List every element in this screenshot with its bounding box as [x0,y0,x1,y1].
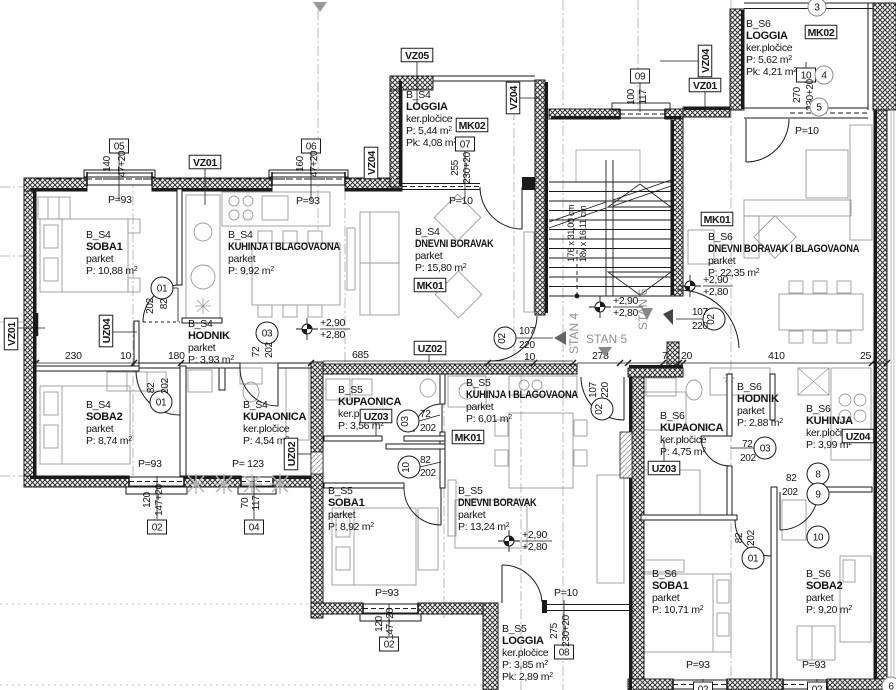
svg-text:47+20: 47+20 [309,150,320,177]
svg-text:P: 13,24 m2: P: 13,24 m2 [458,521,510,533]
svg-text:B_S4: B_S4 [243,399,268,411]
svg-text:202: 202 [420,468,437,479]
svg-text:P=93: P=93 [296,195,320,207]
svg-text:SOBA1: SOBA1 [652,580,689,592]
svg-text:KUHINJA: KUHINJA [806,415,853,427]
svg-text:B_S6: B_S6 [708,231,733,243]
svg-text:P: 8,92 m2: P: 8,92 m2 [328,521,374,533]
svg-text:B_S6: B_S6 [806,568,831,580]
svg-text:+2,90: +2,90 [522,529,548,541]
svg-text:P: 9,92 m2: P: 9,92 m2 [228,265,274,277]
svg-text:220: 220 [600,381,611,398]
svg-text:5: 5 [816,103,822,114]
svg-text:7: 7 [662,350,668,362]
svg-text:02: 02 [152,523,163,534]
svg-text:202: 202 [740,453,757,464]
svg-text:P: 4,54 m2: P: 4,54 m2 [243,435,289,447]
svg-text:255: 255 [450,159,461,176]
svg-text:ker.pločice: ker.pločice [746,42,793,54]
svg-text:LOGGIA: LOGGIA [746,30,788,42]
svg-text:parket: parket [737,405,765,417]
svg-text:KUPAONICA: KUPAONICA [660,422,723,434]
svg-text:VZ01: VZ01 [193,157,217,169]
svg-text:82: 82 [734,532,745,543]
svg-text:230: 230 [65,350,82,362]
svg-text:P: 5,44 m2: P: 5,44 m2 [406,125,452,137]
svg-text:ker.pločice: ker.pločice [243,423,290,435]
svg-text:DNEVNI BORAVAK I BLAGOVAONA: DNEVNI BORAVAK I BLAGOVAONA [708,243,859,255]
svg-text:82: 82 [146,382,157,393]
svg-text:82: 82 [159,298,170,309]
svg-text:25: 25 [860,350,872,362]
svg-text:P: 3,93 m2: P: 3,93 m2 [188,354,234,366]
svg-text:P=93: P=93 [802,659,826,671]
svg-text:02: 02 [497,333,508,344]
svg-text:202: 202 [746,529,757,546]
svg-text:72: 72 [251,346,262,357]
svg-text:ker.pločice: ker.pločice [406,113,453,125]
svg-text:10: 10 [524,351,536,363]
svg-text:B_S4: B_S4 [406,89,431,101]
svg-text:ker.pločice: ker.pločice [660,434,707,446]
svg-text:MK02: MK02 [808,27,835,39]
svg-text:B_S5: B_S5 [338,384,363,396]
svg-text:+2,90: +2,90 [703,274,729,286]
svg-text:VZ04: VZ04 [700,49,712,73]
svg-text:SOBA1: SOBA1 [86,241,123,253]
svg-text:parket: parket [228,253,256,265]
svg-text:parket: parket [708,255,736,267]
svg-text:HODNIK: HODNIK [737,393,779,405]
svg-text:MK01: MK01 [704,214,731,226]
svg-text:B_S6: B_S6 [806,403,831,415]
svg-text:B_S6: B_S6 [652,568,677,580]
svg-text:KUPAONICA: KUPAONICA [243,411,306,423]
svg-text:B_S4: B_S4 [228,229,253,241]
svg-text:4: 4 [821,71,827,82]
svg-text:B_S6: B_S6 [737,381,762,393]
svg-text:202: 202 [145,297,156,314]
svg-text:20: 20 [681,350,693,362]
svg-text:03: 03 [400,416,411,427]
svg-text:10: 10 [401,462,412,473]
svg-text:SOBA2: SOBA2 [86,411,123,423]
svg-text:10: 10 [813,533,824,544]
svg-text:120: 120 [142,491,153,508]
svg-text:09: 09 [635,72,646,83]
svg-text:MK01: MK01 [417,280,444,292]
svg-text:P=93: P=93 [138,458,162,470]
svg-text:P=10: P=10 [795,125,819,137]
svg-text:UZ03: UZ03 [364,411,389,423]
svg-text:HODNIK: HODNIK [188,330,230,342]
svg-text:147+20: 147+20 [154,483,165,516]
svg-text:UZ04: UZ04 [846,431,871,443]
svg-text:parket: parket [188,342,216,354]
svg-text:STAN 4: STAN 4 [567,313,581,354]
svg-text:MK01: MK01 [455,432,482,444]
svg-text:+2,80: +2,80 [522,541,548,553]
svg-text:parket: parket [328,509,356,521]
svg-text:+2,80: +2,80 [320,329,346,341]
svg-text:P: 8,74 m2: P: 8,74 m2 [86,435,132,447]
svg-text:8: 8 [815,470,821,481]
svg-text:Pk: 4,08 m2: Pk: 4,08 m2 [406,137,457,149]
svg-text:08: 08 [559,648,570,659]
svg-text:02: 02 [812,685,823,690]
svg-text:UZ03: UZ03 [652,463,677,475]
svg-text:P: 10,71 m2: P: 10,71 m2 [652,604,704,616]
svg-text:6: 6 [888,682,894,690]
svg-text:+2,80: +2,80 [703,286,729,298]
svg-text:202: 202 [420,423,437,434]
svg-text:100: 100 [626,88,637,105]
svg-text:STAN 5: STAN 5 [586,332,627,346]
svg-text:B_S4: B_S4 [188,318,213,330]
svg-text:140: 140 [102,155,113,172]
svg-text:UZ02: UZ02 [418,343,443,355]
svg-text:+2,90: +2,90 [613,295,639,307]
svg-text:03: 03 [262,329,273,340]
svg-text:VZ04: VZ04 [366,151,378,175]
svg-text:B_S5: B_S5 [458,485,483,497]
svg-text:KUHINJA I BLAGOVAONA: KUHINJA I BLAGOVAONA [466,389,578,401]
svg-text:MK02: MK02 [459,120,486,132]
svg-text:230+20: 230+20 [462,151,473,184]
svg-text:P: 10,88 m2: P: 10,88 m2 [86,265,138,277]
svg-text:LOGGIA: LOGGIA [502,635,544,647]
svg-text:10: 10 [120,350,132,362]
svg-text:B_S6: B_S6 [746,18,771,30]
svg-text:02: 02 [698,685,709,690]
svg-text:KUHINJA I BLAGOVAONA: KUHINJA I BLAGOVAONA [228,241,340,253]
svg-text:KUPAONICA: KUPAONICA [338,396,401,408]
svg-text:47+20: 47+20 [117,150,128,177]
svg-text:685: 685 [352,349,369,361]
svg-text:ker.pločice: ker.pločice [502,647,549,659]
svg-text:04: 04 [249,523,260,534]
svg-text:9: 9 [815,490,821,501]
svg-text:3: 3 [814,3,820,14]
svg-text:B_S4: B_S4 [415,226,440,238]
svg-text:UZ04: UZ04 [101,318,113,343]
svg-text:202: 202 [160,377,171,394]
svg-text:107: 107 [692,307,709,318]
svg-text:01: 01 [157,284,168,295]
svg-text:P= 123: P= 123 [232,458,264,470]
svg-text:SOBA1: SOBA1 [328,497,365,509]
svg-text:B_S5: B_S5 [502,623,527,635]
svg-text:VZ05: VZ05 [405,50,429,62]
svg-text:107: 107 [588,381,599,398]
svg-text:B_S4: B_S4 [86,229,111,241]
svg-text:147+20: 147+20 [385,607,396,640]
svg-text:B_S5: B_S5 [466,377,491,389]
svg-text:107: 107 [519,326,536,337]
svg-text:DNEVNI BORAVAK: DNEVNI BORAVAK [458,497,537,509]
svg-text:P: 6,01 m2: P: 6,01 m2 [466,413,512,425]
svg-text:P: 3,85 m2: P: 3,85 m2 [502,659,548,671]
svg-text:VZ01: VZ01 [6,322,18,346]
svg-text:B_S6: B_S6 [660,410,685,422]
svg-text:parket: parket [458,509,486,521]
svg-text:P: 2,88 m2: P: 2,88 m2 [737,417,783,429]
svg-text:117: 117 [251,495,262,511]
svg-text:UZ02: UZ02 [286,441,298,466]
svg-text:P=93: P=93 [108,194,132,206]
svg-text:P: 4,75 m2: P: 4,75 m2 [660,446,706,458]
svg-text:P=93: P=93 [375,587,399,599]
svg-text:03: 03 [760,444,771,455]
svg-text:parket: parket [86,423,114,435]
svg-text:01: 01 [156,398,167,409]
svg-text:SOBA2: SOBA2 [806,580,843,592]
svg-text:275: 275 [549,622,560,639]
svg-text:01: 01 [748,554,759,565]
svg-text:202: 202 [782,487,799,498]
svg-text:P=93: P=93 [686,659,710,671]
svg-text:07: 07 [460,140,471,151]
svg-text:parket: parket [806,592,834,604]
svg-text:202: 202 [264,341,275,358]
svg-text:160: 160 [295,155,306,172]
svg-text:117: 117 [638,89,649,105]
svg-text:P=10: P=10 [554,587,578,599]
svg-text:02: 02 [594,404,605,415]
svg-text:410: 410 [768,350,785,362]
svg-text:120: 120 [374,615,385,632]
svg-text:176 x 31,00 cm: 176 x 31,00 cm [566,205,576,262]
svg-text:parket: parket [466,401,494,413]
svg-text:P: 9,20 m2: P: 9,20 m2 [806,604,852,616]
svg-text:B_S5: B_S5 [328,485,353,497]
svg-text:parket: parket [415,250,443,262]
svg-text:270: 270 [792,86,803,103]
svg-text:LOGGIA: LOGGIA [406,101,448,113]
svg-text:220: 220 [519,340,536,351]
svg-text:82: 82 [786,473,797,484]
svg-text:Pk: 4,21 m2: Pk: 4,21 m2 [746,66,797,78]
svg-text:P: 5,62 m2: P: 5,62 m2 [746,54,792,66]
svg-text:+2,90: +2,90 [320,317,346,329]
svg-text:+2,80: +2,80 [613,307,639,319]
svg-text:parket: parket [86,253,114,265]
svg-text:180: 180 [168,350,185,362]
svg-text:DNEVNI BORAVAK: DNEVNI BORAVAK [415,238,494,250]
svg-text:VZ01: VZ01 [693,80,717,92]
svg-text:Pk: 2,89 m2: Pk: 2,89 m2 [502,671,553,683]
svg-text:02: 02 [384,640,395,651]
svg-text:VZ04: VZ04 [508,86,520,110]
svg-text:70: 70 [240,497,251,508]
svg-text:B_S4: B_S4 [86,399,111,411]
svg-text:P: 15,80 m2: P: 15,80 m2 [415,262,467,274]
svg-text:P=10: P=10 [449,195,473,207]
svg-text:230+20: 230+20 [561,614,572,647]
svg-text:18v x 16,11 cm: 18v x 16,11 cm [578,206,588,262]
svg-text:220: 220 [692,321,709,332]
svg-text:parket: parket [652,592,680,604]
